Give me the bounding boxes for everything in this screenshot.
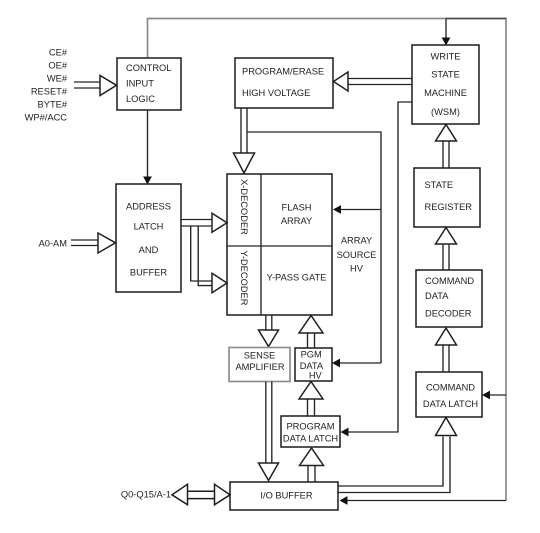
svg-text:X-DECODER: X-DECODER (239, 179, 249, 235)
svg-text:AMPLIFIER: AMPLIFIER (235, 362, 284, 372)
svg-text:CONTROL: CONTROL (126, 63, 171, 73)
bus arrow bidirectional Q0-Q15/A-1 to I/O BUFFER (172, 484, 230, 504)
bus arrow PROGRAM/ERASE HV down to X-DECODER (234, 108, 255, 173)
bus arrow COMMAND DATA DECODER up to STATE REGISTER (436, 228, 457, 271)
svg-text:DATA LATCH: DATA LATCH (283, 434, 338, 444)
svg-text:DATA LATCH: DATA LATCH (423, 399, 478, 409)
svg-text:CE#: CE# (49, 48, 68, 58)
box ADDRESS LATCH AND BUFFER (116, 184, 181, 292)
svg-text:Y-DECODER: Y-DECODER (239, 251, 249, 306)
svg-text:PGM: PGM (301, 350, 322, 360)
node label ARRAY SOURCE HV (337, 236, 377, 274)
wire into FLASH ARRAY right edge (333, 205, 381, 214)
wire from top rail down into WRITE STATE MACHINE (442, 19, 451, 46)
svg-text:Y-PASS GATE: Y-PASS GATE (267, 273, 327, 283)
svg-text:DECODER: DECODER (425, 309, 472, 319)
svg-text:REGISTER: REGISTER (425, 202, 473, 212)
svg-text:LATCH: LATCH (134, 222, 164, 232)
box decoder/array block (227, 174, 332, 315)
svg-text:BUFFER: BUFFER (130, 267, 167, 277)
svg-text:SOURCE: SOURCE (337, 250, 377, 260)
svg-text:BYTE#: BYTE# (38, 100, 68, 110)
wire array source HV rail tap from program HV line (247, 132, 381, 363)
wire right rail bottom into I/O BUFFER (340, 496, 507, 505)
svg-text:ARRAY: ARRAY (281, 216, 312, 226)
svg-text:OE#: OE# (48, 61, 67, 71)
svg-text:PROGRAM: PROGRAM (286, 421, 334, 431)
bus arrow SENSE AMPLIFIER down to I/O BUFFER (259, 382, 279, 481)
box CONTROL INPUT LOGIC (117, 58, 181, 110)
svg-text:Q0-Q15/A-1: Q0-Q15/A-1 (121, 490, 171, 500)
bus arrow control inputs into CONTROL INPUT LOGIC (74, 76, 117, 96)
bus arrow WSM to PROGRAM/ERASE HIGH VOLTAGE (334, 72, 413, 91)
svg-text:FLASH: FLASH (282, 202, 312, 212)
bus arrow STATE REGISTER up to WSM (436, 125, 457, 169)
svg-text:SENSE: SENSE (244, 350, 276, 360)
box I/O BUFFER (230, 482, 338, 510)
wire WSM left to PROGRAM DATA LATCH (341, 102, 413, 436)
svg-text:STATE: STATE (431, 70, 460, 80)
bus arrow ADDRESS LATCH to X-DECODER (182, 213, 228, 232)
box PGM DATA HV (295, 348, 332, 381)
svg-text:HIGH VOLTAGE: HIGH VOLTAGE (242, 88, 310, 98)
bus arrow PROGRAM DATA LATCH up to PGM DATA HV (299, 382, 323, 417)
svg-text:WRITE: WRITE (431, 51, 461, 61)
svg-text:ARRAY: ARRAY (341, 236, 372, 246)
bus arrow I/O BUFFER up to PROGRAM DATA LATCH (300, 448, 324, 482)
svg-text:(WSM): (WSM) (431, 107, 460, 117)
box PROGRAM DATA LATCH (281, 416, 340, 447)
svg-text:HV: HV (350, 264, 364, 274)
label FLASH ARRAY (281, 202, 312, 226)
box WRITE STATE MACHINE (WSM) (412, 45, 479, 124)
box COMMAND DATA LATCH (416, 372, 482, 417)
svg-text:DATA: DATA (425, 291, 449, 301)
node labels CE# OE# WE# RESET# BYTE# WP#/ACC (25, 48, 68, 123)
wire into PGM DATA HV right edge (332, 359, 381, 368)
svg-text:HV: HV (309, 371, 323, 381)
bus arrow A0-AM into ADDRESS LATCH (71, 233, 116, 253)
bus arrow PGM DATA HV up to Y-PASS GATE (299, 316, 323, 349)
svg-text:DATA: DATA (300, 361, 324, 371)
box SENSE AMPLIFIER (229, 348, 290, 382)
svg-text:WE#: WE# (47, 73, 68, 83)
svg-text:STATE: STATE (425, 180, 454, 190)
svg-text:MACHINE: MACHINE (424, 88, 467, 98)
svg-text:AND: AND (139, 245, 159, 255)
bus arrow COMMAND DATA LATCH up to COMMAND DATA DECODER (436, 328, 457, 372)
box STATE REGISTER (414, 168, 480, 227)
svg-text:I/O BUFFER: I/O BUFFER (260, 490, 312, 500)
box COMMAND DATA DECODER (416, 270, 482, 327)
svg-text:ADDRESS: ADDRESS (126, 201, 171, 211)
svg-text:RESET#: RESET# (31, 86, 68, 96)
bus arrow Y-PASS GATE down to SENSE AMPLIFIER (259, 315, 279, 347)
box PROGRAM/ERASE HIGH VOLTAGE (235, 58, 333, 108)
wire grey feedback rail from CONTROL INPUT LOGIC top across and down right side (148, 19, 507, 501)
bus arrow I/O BUFFER right up to COMMAND DATA LATCH (339, 418, 457, 493)
wire CONTROL INPUT LOGIC to ADDRESS LATCH (143, 110, 152, 185)
svg-text:WP#/ACC: WP#/ACC (25, 113, 68, 123)
svg-text:A0-AM: A0-AM (39, 239, 67, 249)
svg-text:LOGIC: LOGIC (126, 94, 155, 104)
svg-text:PROGRAM/ERASE: PROGRAM/ERASE (242, 67, 324, 77)
wire right rail into COMMAND DATA LATCH (482, 391, 506, 400)
svg-text:COMMAND: COMMAND (425, 276, 474, 286)
bus arrow ADDRESS LATCH branch down to Y-DECODER (191, 226, 227, 293)
svg-text:COMMAND: COMMAND (426, 383, 475, 393)
svg-text:INPUT: INPUT (126, 79, 154, 89)
